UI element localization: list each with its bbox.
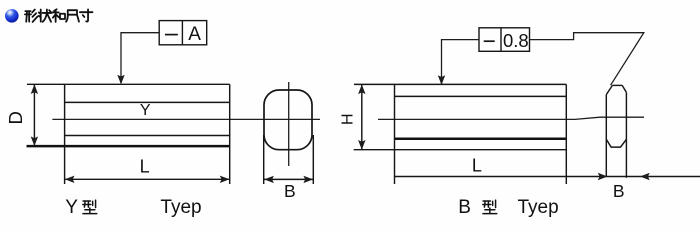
straightness symbol bbox=[165, 34, 178, 36]
side profile top-left chamfer bbox=[606, 85, 612, 94]
B-type right edge / extension line bbox=[565, 84, 567, 184]
svg-text:D: D bbox=[5, 111, 26, 124]
Y-type bottom outline line (thick) bbox=[27, 145, 230, 148]
leader from frame 0.8 to B-type top bbox=[442, 40, 480, 84]
end view vertical center line bbox=[288, 82, 290, 166]
header title 形状和尺寸 (drawn strokes) bbox=[25, 9, 93, 22]
svg-text:Y: Y bbox=[140, 102, 151, 119]
leader 0.8 arrowhead bbox=[438, 75, 445, 85]
svg-text:H: H bbox=[339, 113, 356, 125]
svg-text:B: B bbox=[613, 181, 625, 201]
svg-text:A: A bbox=[188, 24, 201, 45]
dimension L left arrowhead bbox=[65, 176, 75, 183]
svg-text:Tyep: Tyep bbox=[160, 197, 201, 218]
kanji 型 (B type) bbox=[483, 200, 497, 214]
svg-text:0.8: 0.8 bbox=[503, 30, 529, 51]
dimension D bottom arrowhead bbox=[31, 136, 38, 146]
leader from frame 0.8 to side profile bbox=[530, 33, 644, 85]
end view rounded outline (Y-type) bbox=[264, 90, 312, 150]
feature control frame (straightness 0.8) box bbox=[479, 28, 530, 52]
leader from frame A bbox=[121, 33, 159, 83]
feature control frame (straightness A) box bbox=[159, 21, 207, 45]
B-type thick inner line bbox=[395, 138, 567, 141]
side profile top-right chamfer bbox=[622, 85, 626, 92]
dimension H top arrowhead bbox=[358, 84, 365, 94]
dimension L line (Y-type) bbox=[65, 178, 230, 180]
dimension D line bbox=[33, 85, 35, 146]
dimension B left-pointing arrowhead (B-type) bbox=[640, 173, 650, 180]
dimension B right-pointing arrowhead (B-type) bbox=[598, 173, 608, 180]
dimension B right arrowhead bbox=[303, 176, 313, 183]
dimension B left arrowhead bbox=[264, 176, 274, 183]
straightness symbol (0.8 frame) bbox=[484, 40, 495, 42]
side profile left edge bbox=[605, 95, 607, 177]
svg-text:L: L bbox=[140, 157, 150, 177]
B-type center line bbox=[378, 117, 644, 119]
side profile inner notch bbox=[606, 139, 626, 147]
B-type bottom outline line bbox=[354, 149, 567, 151]
Y-type top outline line bbox=[27, 83, 230, 85]
side profile top edge bbox=[612, 84, 622, 86]
end view left extension line bbox=[263, 135, 265, 184]
svg-text:Tyep: Tyep bbox=[518, 197, 559, 218]
kanji 型 (Y type) bbox=[83, 200, 97, 214]
svg-text:B: B bbox=[458, 197, 471, 218]
dimension D top arrowhead bbox=[31, 84, 38, 94]
Y-type hole bottom line bbox=[65, 135, 230, 137]
dimension L right arrowhead bbox=[220, 176, 230, 183]
svg-text:B: B bbox=[284, 181, 296, 201]
B-type inner line bbox=[395, 95, 567, 97]
dimension L line (B-type, continuous to right edge) bbox=[395, 176, 700, 178]
dimension H bottom arrowhead bbox=[358, 140, 365, 150]
Y-type left edge / extension line bbox=[64, 84, 66, 184]
leader A arrowhead bbox=[117, 75, 124, 85]
svg-text:L: L bbox=[472, 155, 482, 175]
side profile right edge bbox=[625, 92, 627, 177]
header bullet ball icon bbox=[5, 9, 19, 23]
dimension B line (Y-type) bbox=[264, 178, 314, 180]
B-type left edge / extension line bbox=[394, 84, 396, 184]
B-type top outline line bbox=[354, 83, 566, 85]
Y-type right edge / extension line bbox=[229, 84, 231, 184]
Y-type center line bbox=[52, 118, 320, 120]
dimension H line bbox=[361, 85, 363, 149]
Y-type hole top line bbox=[65, 101, 230, 103]
end view right extension line bbox=[312, 135, 314, 184]
svg-text:Y: Y bbox=[65, 197, 78, 218]
